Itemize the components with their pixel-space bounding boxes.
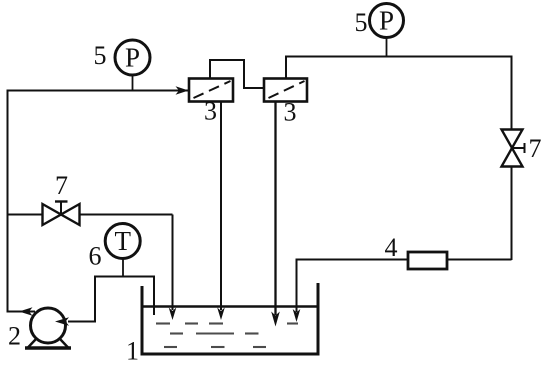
wire return line: [297, 259, 512, 261]
valve 7a handle: [60, 202, 62, 215]
wire top-left feed line: [7, 90, 189, 92]
svg-text:7: 7: [529, 134, 542, 163]
svg-text:4: 4: [385, 233, 398, 262]
water dashes row 1: [156, 322, 298, 324]
stem of gauge 5a: [132, 75, 134, 91]
arrow 3b into tank: [271, 312, 280, 327]
arrow 3a into tank: [217, 308, 225, 321]
wire pump discharge: [7, 311, 36, 313]
wire bypass downpipe: [172, 215, 174, 311]
membrane module 3a: [189, 79, 233, 102]
wire bypass line: [7, 214, 44, 216]
svg-text:3: 3: [284, 98, 297, 127]
wire module 3a downpipe: [220, 102, 222, 311]
arrow pump discharge: [19, 307, 33, 316]
valve 7b right vertical: [502, 130, 523, 149]
wire suction dip tube: [153, 276, 155, 316]
svg-text:5: 5: [94, 41, 107, 70]
rotameter 4: [408, 252, 447, 269]
arrow bypass into tank: [169, 308, 177, 321]
wire suction drop: [94, 276, 96, 322]
svg-text:P: P: [379, 6, 394, 36]
water dashes row 2: [170, 332, 259, 334]
wire module 3b downpipe: [274, 102, 276, 316]
svg-text:P: P: [125, 43, 140, 73]
arrow return into tank: [293, 309, 301, 322]
valve 7a horizontal: [43, 204, 62, 225]
stem of gauge 5b: [386, 38, 388, 57]
svg-text:T: T: [114, 226, 131, 256]
wire left riser: [7, 90, 9, 313]
membrane module 3b: [264, 79, 307, 102]
svg-text:3: 3: [204, 97, 217, 126]
svg-text:6: 6: [89, 242, 102, 271]
tank 1 water level: [144, 305, 317, 308]
temperature gauge T 6: [105, 224, 140, 259]
pressure gauge P 5b: [370, 4, 404, 38]
water dashes row 3: [164, 346, 266, 348]
wire return downpipe: [296, 259, 298, 313]
wire module 3a top to module 3b: [210, 60, 264, 88]
svg-text:1: 1: [126, 337, 139, 366]
arrow into module 3a: [176, 86, 189, 95]
wire module 3b top to right riser: [286, 57, 512, 131]
wire suction to pump: [68, 321, 96, 323]
arrow into pump: [55, 317, 69, 326]
wire suction header: [95, 276, 154, 278]
valve 7b handle: [512, 147, 525, 149]
svg-text:5: 5: [355, 8, 368, 37]
tank 1 walls: [142, 283, 318, 354]
wire right riser lower: [511, 167, 513, 261]
pump stand base: [25, 346, 71, 350]
svg-text:7: 7: [55, 171, 68, 200]
pressure gauge P 5a: [115, 40, 150, 75]
pump 2: [31, 308, 66, 343]
svg-text:2: 2: [8, 322, 21, 351]
pump stand left leg: [27, 339, 36, 349]
pump stand right leg: [60, 339, 69, 349]
stem of gauge 6: [122, 258, 124, 277]
